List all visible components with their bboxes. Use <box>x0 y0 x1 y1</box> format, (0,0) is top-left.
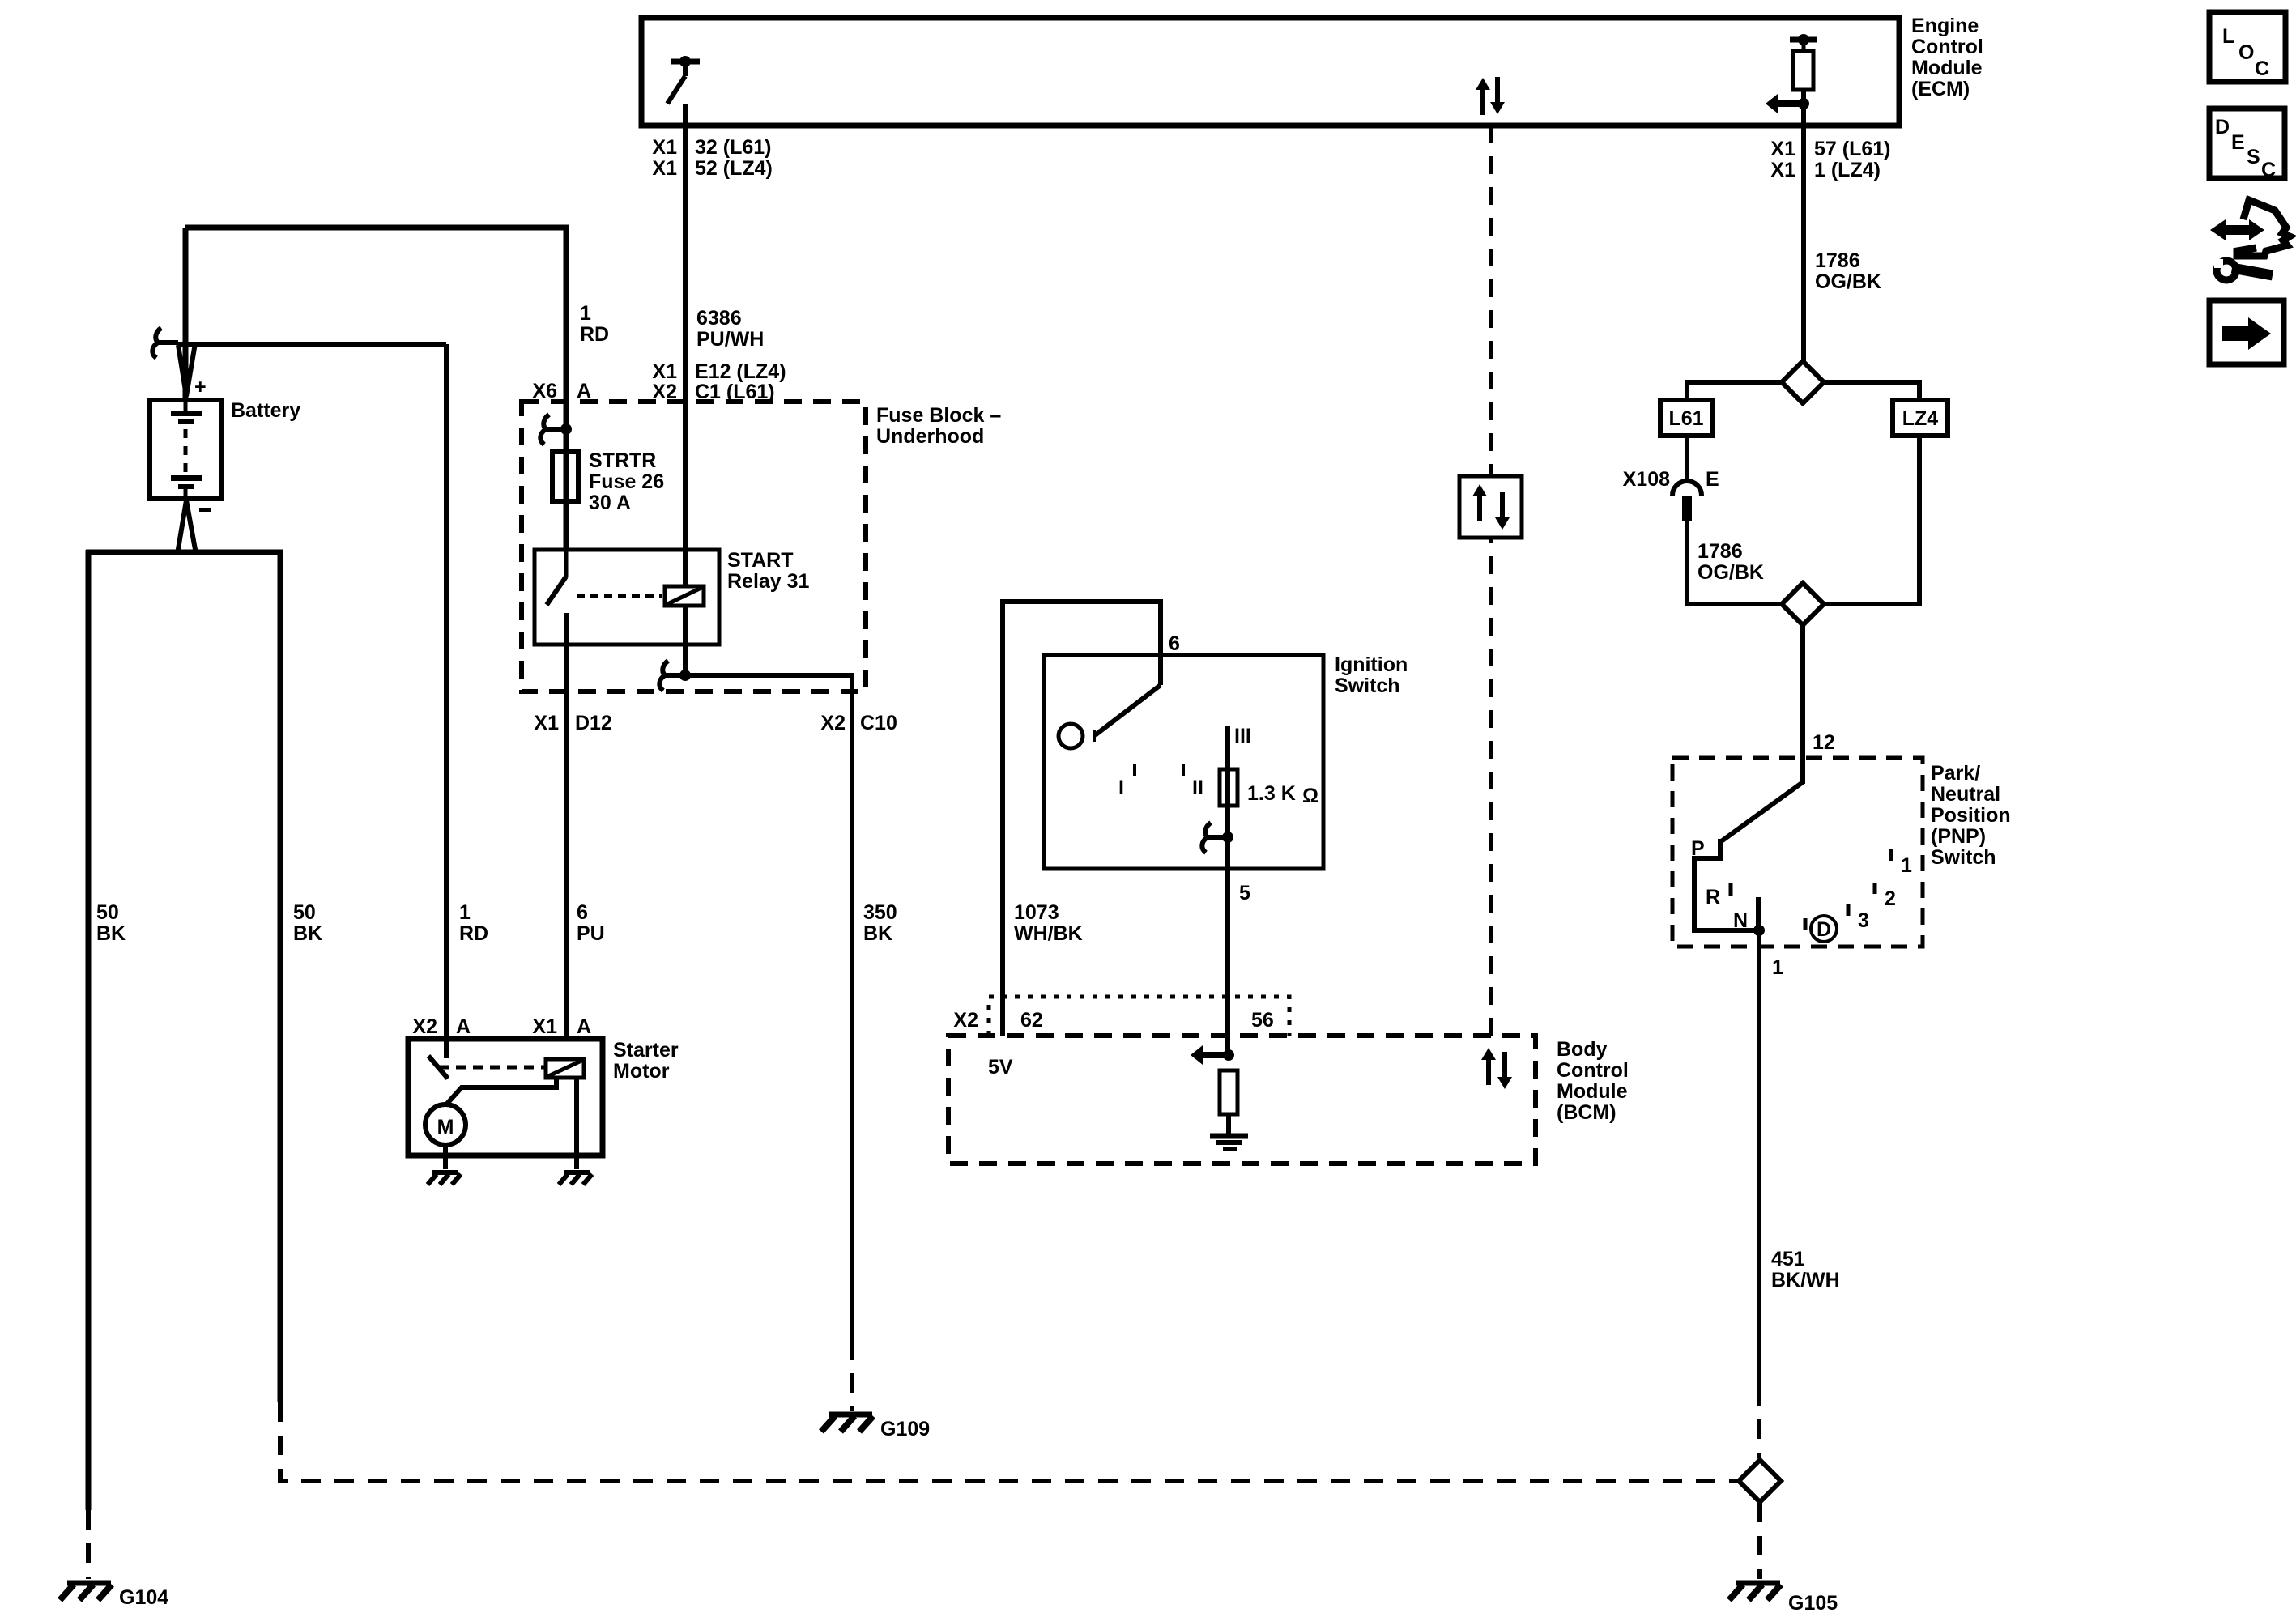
battery positive terminal V <box>178 343 195 396</box>
svg-text:56: 56 <box>1251 1009 1274 1032</box>
svg-text:Control: Control <box>1557 1059 1629 1082</box>
ECM internal switch pin (left) <box>667 56 700 104</box>
wire relay coil to ground junction <box>679 606 691 681</box>
svg-text:50: 50 <box>96 901 119 924</box>
starter solenoid dashed link <box>439 1066 544 1070</box>
svg-text:C10: C10 <box>860 712 897 734</box>
svg-text:Neutral: Neutral <box>1931 783 2000 806</box>
svg-text:1: 1 <box>580 302 591 325</box>
svg-text:52 (LZ4): 52 (LZ4) <box>695 157 773 180</box>
ground G105 <box>1729 1583 1838 1615</box>
svg-text:+: + <box>194 376 207 398</box>
svg-text:50: 50 <box>293 901 316 924</box>
svg-text:451: 451 <box>1771 1248 1805 1270</box>
label 6386 PU/WH <box>696 307 764 351</box>
ground G109 <box>821 1415 930 1440</box>
legend forward arrow box <box>2209 300 2284 364</box>
wire solenoid coil to motor <box>447 1078 556 1104</box>
starter pin labels X2 A X1 A <box>412 1015 591 1038</box>
starter motor M <box>425 1104 466 1145</box>
position tick II <box>1183 764 1203 799</box>
svg-text:BK: BK <box>293 922 322 945</box>
BCM connector labels X2 62 56 <box>953 1009 1273 1032</box>
svg-text:5: 5 <box>1239 882 1250 904</box>
svg-text:E12 (LZ4): E12 (LZ4) <box>695 360 786 383</box>
svg-text:X2: X2 <box>412 1015 437 1038</box>
BCM pull-up resistor <box>1220 1070 1237 1114</box>
wire 50 BK right, dashed to G105 splice <box>280 550 1741 1481</box>
relay actuating dashed link <box>577 594 662 598</box>
svg-text:G105: G105 <box>1788 1592 1838 1615</box>
svg-text:X6: X6 <box>532 380 557 402</box>
svg-text:X1: X1 <box>532 1015 557 1038</box>
BCM X2 connector dotted box <box>989 997 1289 1036</box>
ECM right pin labels X1 57/1 <box>1770 138 1890 181</box>
Engine Control Module (ECM) box <box>641 18 1899 126</box>
svg-text:O: O <box>2238 41 2254 64</box>
svg-text:X2: X2 <box>953 1009 978 1032</box>
svg-text:32 (L61): 32 (L61) <box>695 136 771 159</box>
hook at fuse junction <box>540 415 566 445</box>
svg-text:OG/BK: OG/BK <box>1698 561 1764 584</box>
relay switch contact <box>547 550 566 605</box>
label 1 RD (top) <box>580 302 609 346</box>
X108 labels <box>1623 468 1719 491</box>
svg-text:D: D <box>1817 918 1831 941</box>
wire L61 to X108 <box>1685 436 1689 483</box>
label 5V <box>988 1056 1013 1079</box>
svg-text:1 (LZ4): 1 (LZ4) <box>1814 159 1881 181</box>
hook at relay coil output <box>659 661 685 691</box>
STRTR fuse label <box>589 449 664 514</box>
wire 50 BK left to G104 <box>86 550 92 1579</box>
svg-text:LZ4: LZ4 <box>1902 407 1939 430</box>
svg-text:X1: X1 <box>652 136 677 159</box>
svg-text:WH/BK: WH/BK <box>1014 922 1083 945</box>
label pin 6 <box>1169 632 1180 655</box>
label 350 BK <box>863 901 897 945</box>
START Relay 31 box <box>535 550 719 645</box>
svg-text:Body: Body <box>1557 1038 1608 1061</box>
label 1786 OG/BK (upper) <box>1815 249 1881 293</box>
battery B1 <box>150 400 221 499</box>
engine code box LZ4 <box>1893 400 1948 436</box>
BCM internal ground <box>1210 1136 1248 1149</box>
engine code box L61 <box>1660 400 1712 436</box>
ECM serial data arrows (up/down pair) <box>1476 77 1505 115</box>
splice diamond (upper) <box>1782 361 1824 403</box>
label pin 1 <box>1772 956 1783 979</box>
PNP position labels P R N <box>1691 837 1748 932</box>
label 1073 WH/BK <box>1014 901 1083 945</box>
resistor 1.3 K ohm <box>1220 769 1318 807</box>
Ignition Switch label <box>1335 653 1408 697</box>
wire to LZ4 branch <box>1823 382 1919 400</box>
svg-text:N: N <box>1733 909 1748 932</box>
serial data dashed wire ECM to BCM <box>1489 126 1493 1036</box>
legend DESC box <box>2209 109 2285 181</box>
PNP position 3 <box>1848 904 1869 932</box>
svg-text:START: START <box>727 549 793 572</box>
label X1 E12 / X2 C1 fuse block pins <box>652 360 786 403</box>
svg-text:Ignition: Ignition <box>1335 653 1408 676</box>
node fuse feed junction <box>560 423 572 435</box>
svg-text:RD: RD <box>580 323 609 346</box>
battery feed hook <box>152 328 178 358</box>
PNP switch label <box>1931 762 2011 869</box>
wire motor to ground <box>443 1145 448 1169</box>
svg-text:Fuse 26: Fuse 26 <box>589 470 664 493</box>
battery negative bus wire <box>86 550 283 555</box>
position III <box>1234 725 1251 747</box>
svg-text:6386: 6386 <box>696 307 742 330</box>
svg-text:6: 6 <box>1169 632 1180 655</box>
wire 6 PU relay to starter solenoid <box>564 613 569 1039</box>
ground at starter solenoid <box>559 1172 592 1185</box>
ignition switch blade <box>1094 685 1161 742</box>
label 1786 OG/BK (lower) <box>1698 540 1764 584</box>
svg-text:1073: 1073 <box>1014 901 1059 924</box>
label 1 RD (lower) <box>459 901 488 945</box>
label 50 BK (second) <box>293 901 322 945</box>
label 451 BK/WH <box>1771 1248 1840 1291</box>
wire to L61 branch <box>1687 382 1783 400</box>
connector X108 pin E <box>1672 481 1702 521</box>
svg-text:350: 350 <box>863 901 897 924</box>
splice diamond at G105 <box>1739 1460 1781 1502</box>
svg-text:57 (L61): 57 (L61) <box>1814 138 1890 160</box>
label X6 A <box>532 380 591 402</box>
wire 1 RD to starter motor (vertical) <box>444 344 449 1039</box>
svg-text:BK/WH: BK/WH <box>1771 1269 1840 1291</box>
PNP switch blade and wiper path <box>1694 782 1803 936</box>
svg-text:E: E <box>2231 131 2245 154</box>
wire 1073 WH/BK ignition feed <box>1003 602 1161 1036</box>
relay coil <box>665 586 704 606</box>
svg-text:A: A <box>577 1015 591 1038</box>
Fuse Block label <box>876 404 1001 448</box>
serial data boxed arrows <box>1459 476 1522 538</box>
ECM input arrow at right pin <box>1766 94 1809 113</box>
position tick I <box>1118 764 1135 799</box>
BCM input arrow junction <box>1191 1045 1234 1065</box>
PNP position 1 <box>1891 849 1912 877</box>
PNP position 2 <box>1875 883 1896 910</box>
Park/Neutral Position Switch dashed box <box>1672 758 1923 947</box>
dashed wire splice to G105 <box>1757 1503 1762 1579</box>
svg-text:P: P <box>1691 837 1705 860</box>
svg-text:Engine: Engine <box>1911 15 1979 37</box>
svg-text:12: 12 <box>1813 731 1835 754</box>
svg-text:Switch: Switch <box>1335 674 1400 697</box>
ignition switch rotor circle <box>1059 724 1083 748</box>
svg-text:Underhood: Underhood <box>876 425 984 448</box>
node ignition output junction <box>1222 832 1233 843</box>
Body Control Module dashed box <box>948 1036 1536 1164</box>
wire ignition resistor branch <box>1225 726 1230 1055</box>
Fuse Block - Underhood dashed box <box>522 402 866 691</box>
svg-text:A: A <box>577 380 591 402</box>
svg-text:1786: 1786 <box>1698 540 1743 563</box>
fuse STRTR Fuse 26 30A <box>552 452 578 501</box>
svg-text:L: L <box>2222 25 2234 48</box>
svg-text:1786: 1786 <box>1815 249 1860 272</box>
svg-text:30 A: 30 A <box>589 491 631 514</box>
svg-text:M: M <box>437 1116 454 1138</box>
svg-text:X1: X1 <box>1770 138 1795 160</box>
ECM internal resistor pin (right) <box>1790 34 1817 90</box>
svg-text:62: 62 <box>1020 1009 1043 1032</box>
svg-text:RD: RD <box>459 922 488 945</box>
ECM left pin labels X1 32/52 <box>652 136 772 180</box>
svg-text:X1: X1 <box>1770 159 1795 181</box>
svg-text:G109: G109 <box>880 1418 930 1440</box>
Ignition Switch box <box>1044 655 1323 869</box>
svg-text:1.3 K: 1.3 K <box>1247 782 1296 805</box>
starter solenoid coil <box>546 1059 584 1078</box>
svg-text:D12: D12 <box>575 712 612 734</box>
svg-text:Module: Module <box>1911 57 1983 79</box>
wire splice to PNP switch <box>1800 625 1805 784</box>
Battery label <box>231 399 300 422</box>
svg-text:X1: X1 <box>652 360 677 383</box>
svg-text:E: E <box>1706 468 1719 491</box>
svg-text:X1: X1 <box>534 712 559 734</box>
svg-text:D: D <box>2215 116 2230 138</box>
svg-text:Park/: Park/ <box>1931 762 1980 785</box>
ECM label <box>1911 15 1983 100</box>
svg-text:PU/WH: PU/WH <box>696 328 764 351</box>
svg-text:X2: X2 <box>820 712 846 734</box>
ground G104 <box>60 1583 168 1609</box>
svg-text:Relay 31: Relay 31 <box>727 570 810 593</box>
BCM serial data arrows <box>1481 1048 1512 1089</box>
battery positive wire <box>183 228 189 400</box>
wire 1 RD battery feed (top) <box>185 228 566 550</box>
PNP position D circled <box>1805 916 1837 942</box>
Starter Motor label <box>613 1039 679 1083</box>
wire 1786 OG/BK (lower) <box>1687 521 1783 604</box>
svg-text:Fuse Block –: Fuse Block – <box>876 404 1001 427</box>
svg-text:I: I <box>1118 777 1124 799</box>
svg-text:Control: Control <box>1911 36 1983 58</box>
svg-text:C: C <box>2261 159 2276 181</box>
svg-text:3: 3 <box>1858 909 1869 932</box>
wire 6386 PU/WH from ECM to relay coil <box>683 104 688 587</box>
label 50 BK (left) <box>96 901 126 945</box>
svg-text:II: II <box>1192 777 1203 799</box>
ground at starter motor <box>428 1172 461 1185</box>
svg-text:1: 1 <box>1772 956 1783 979</box>
svg-text:Motor: Motor <box>613 1060 670 1083</box>
wire LZ4 down to splice <box>1824 436 1919 604</box>
START relay label <box>727 549 810 593</box>
legend LOC box <box>2209 12 2285 82</box>
plus sign <box>194 376 207 398</box>
Starter Motor box <box>408 1039 603 1155</box>
svg-text:III: III <box>1234 725 1251 747</box>
svg-text:Ω: Ω <box>1302 785 1318 807</box>
label pin 5 <box>1239 882 1250 904</box>
svg-text:2: 2 <box>1885 887 1896 910</box>
label pin 12 <box>1813 731 1835 754</box>
svg-text:(ECM): (ECM) <box>1911 78 1970 100</box>
label X2 C10 <box>820 712 897 734</box>
wire 1786 OG/BK from ECM <box>1801 90 1806 361</box>
svg-text:X1: X1 <box>652 157 677 180</box>
wire 1 RD to starter (horizontal) <box>178 342 446 347</box>
svg-text:BK: BK <box>863 922 892 945</box>
hook at ignition junction <box>1202 823 1228 853</box>
svg-text:L61: L61 <box>1668 407 1703 430</box>
svg-text:OG/BK: OG/BK <box>1815 270 1881 293</box>
label X1 D12 <box>534 712 611 734</box>
label 6 PU <box>577 901 605 945</box>
wire solenoid to ground <box>574 1078 579 1169</box>
battery negative terminal V <box>177 500 196 554</box>
wire 451 BK/WH <box>1757 930 1761 1458</box>
wire resistor to BCM ground <box>1226 1114 1231 1134</box>
svg-text:X108: X108 <box>1623 468 1670 491</box>
svg-text:5V: 5V <box>988 1056 1013 1079</box>
svg-text:Battery: Battery <box>231 399 300 422</box>
starter solenoid contact switch <box>428 1039 448 1079</box>
svg-text:STRTR: STRTR <box>589 449 656 472</box>
svg-text:G104: G104 <box>119 1586 168 1609</box>
svg-text:C: C <box>2255 57 2269 80</box>
svg-text:1: 1 <box>459 901 471 924</box>
svg-text:Position: Position <box>1931 804 2011 827</box>
wire 350 BK to G109 <box>685 675 852 1411</box>
svg-text:R: R <box>1706 886 1720 908</box>
svg-text:A: A <box>456 1015 471 1038</box>
svg-text:BK: BK <box>96 922 126 945</box>
BCM label <box>1557 1038 1629 1124</box>
splice diamond (lower) <box>1782 583 1824 625</box>
svg-text:PU: PU <box>577 922 605 945</box>
svg-text:Module: Module <box>1557 1080 1628 1103</box>
svg-text:(BCM): (BCM) <box>1557 1101 1617 1124</box>
svg-text:1: 1 <box>1901 854 1912 877</box>
svg-text:Starter: Starter <box>613 1039 679 1062</box>
legend hand/wrench double-arrow icon <box>2210 200 2290 280</box>
svg-text:S: S <box>2247 146 2260 168</box>
svg-text:Switch: Switch <box>1931 846 1996 869</box>
minus sign <box>199 508 211 512</box>
svg-text:6: 6 <box>577 901 588 924</box>
svg-text:(PNP): (PNP) <box>1931 825 1986 848</box>
